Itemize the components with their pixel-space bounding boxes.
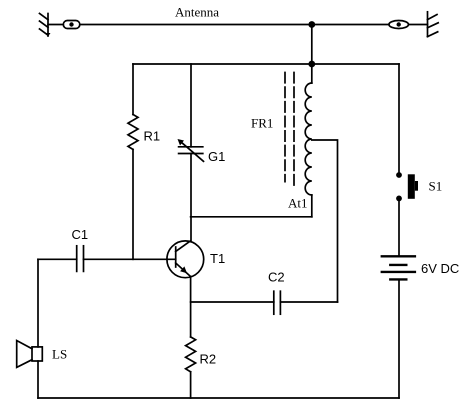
wire battery to bottom rail bbox=[398, 279, 400, 398]
wall anchor right bbox=[428, 12, 439, 37]
svg-text:C2: C2 bbox=[268, 270, 285, 285]
wire C1 to base bbox=[84, 258, 176, 260]
junction dot node A bbox=[308, 21, 315, 28]
svg-text:S1: S1 bbox=[429, 179, 443, 194]
ferrite rod FR1 bbox=[285, 73, 294, 187]
svg-text:Antenna: Antenna bbox=[175, 5, 219, 20]
inductor At1 bbox=[305, 64, 312, 217]
wire R1 branch top bbox=[132, 64, 134, 115]
svg-text:At1: At1 bbox=[288, 196, 308, 211]
wire C2 to tap bbox=[280, 301, 337, 303]
svg-text:G1: G1 bbox=[208, 149, 225, 164]
wall anchor left bbox=[40, 14, 51, 37]
wire bottom rail bbox=[38, 397, 399, 399]
wire speaker to bottom rail bbox=[37, 361, 39, 398]
svg-text:R1: R1 bbox=[144, 129, 161, 144]
wire R1 branch bottom bbox=[132, 149, 134, 259]
junction dot node B bbox=[308, 61, 315, 68]
resistor R1 bbox=[128, 115, 138, 150]
wire left branch down bbox=[37, 259, 39, 347]
wire antenna main bbox=[80, 24, 389, 26]
wire S1 branch top bbox=[398, 64, 400, 175]
wire R2 to bottom rail bbox=[190, 372, 192, 398]
capacitor C1 bbox=[77, 246, 84, 272]
svg-text:C1: C1 bbox=[72, 227, 89, 242]
wire antenna right bbox=[409, 24, 428, 26]
transistor T1 bbox=[167, 241, 204, 278]
svg-text:LS: LS bbox=[52, 347, 67, 362]
resistor R2 bbox=[186, 337, 196, 372]
wire S1 to battery bbox=[398, 198, 400, 256]
wire box bottom bbox=[191, 216, 312, 218]
wire tap bbox=[312, 140, 338, 302]
variable capacitor G1 bbox=[178, 139, 204, 161]
svg-text:FR1: FR1 bbox=[251, 116, 273, 131]
insulator right bbox=[389, 21, 409, 29]
wire top rail bbox=[133, 63, 399, 65]
svg-text:T1: T1 bbox=[210, 251, 225, 266]
switch S1 bbox=[396, 172, 418, 201]
wire node A to node B bbox=[311, 25, 313, 65]
capacitor C2 bbox=[274, 291, 281, 314]
svg-text:R2: R2 bbox=[200, 352, 217, 367]
wire G1 branch top bbox=[190, 64, 192, 147]
wire antenna left bbox=[48, 24, 63, 26]
wire emitter to C2 bbox=[191, 301, 274, 303]
wire C1 left bbox=[38, 258, 77, 260]
svg-text:6V DC: 6V DC bbox=[421, 261, 459, 276]
speaker LS bbox=[17, 341, 43, 368]
wire collector branch bbox=[190, 154, 192, 242]
insulator left bbox=[63, 21, 80, 29]
battery 6V bbox=[382, 256, 415, 279]
wire emitter branch bbox=[190, 277, 192, 337]
